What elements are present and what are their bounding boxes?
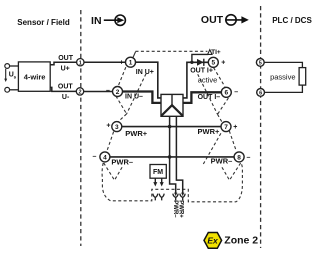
svg-text:PLC / DCS: PLC / DCS <box>272 16 312 25</box>
svg-text:7: 7 <box>224 124 228 131</box>
svg-text:OUT I–: OUT I– <box>198 94 221 101</box>
svg-text:–: – <box>234 89 238 96</box>
svg-text:5: 5 <box>211 60 215 67</box>
svg-text:IN U–: IN U– <box>125 94 143 101</box>
svg-text:2: 2 <box>116 89 120 96</box>
svg-text:PWR–: PWR– <box>111 158 133 167</box>
svg-text:8: 8 <box>237 154 241 161</box>
svg-text:PWR+: PWR+ <box>198 127 220 136</box>
svg-text:passive: passive <box>270 73 295 82</box>
svg-text:U+: U+ <box>61 65 70 72</box>
svg-text:6: 6 <box>224 90 228 97</box>
svg-text:active: active <box>198 76 218 85</box>
svg-text:1: 1 <box>129 60 133 67</box>
svg-text:PWR+: PWR+ <box>125 129 147 138</box>
svg-text:OUT: OUT <box>201 14 224 26</box>
svg-text:PWR–: PWR– <box>172 200 178 218</box>
svg-text:5: 5 <box>259 61 262 67</box>
svg-text:U-: U- <box>62 94 70 101</box>
svg-text:3: 3 <box>115 124 119 131</box>
svg-text:4: 4 <box>103 154 107 161</box>
svg-text:Zone 2: Zone 2 <box>224 234 258 246</box>
svg-text:1: 1 <box>79 60 82 66</box>
svg-text:PWR–: PWR– <box>211 157 233 166</box>
svg-text:+: + <box>221 60 225 67</box>
svg-text:+: + <box>233 124 237 131</box>
svg-text:PWR+: PWR+ <box>177 200 183 218</box>
svg-text:OUT I+: OUT I+ <box>190 68 213 75</box>
svg-text:IN U+: IN U+ <box>136 69 154 76</box>
svg-text:IN: IN <box>91 15 102 27</box>
svg-text:Sensor / Field: Sensor / Field <box>17 18 70 27</box>
svg-text:–: – <box>247 155 251 162</box>
svg-text:+: + <box>106 122 110 129</box>
svg-text:6: 6 <box>259 91 262 97</box>
svg-text:–: – <box>106 88 110 95</box>
svg-text:Ex: Ex <box>207 236 219 246</box>
svg-text:–: – <box>93 154 97 161</box>
svg-text:+: + <box>120 60 124 67</box>
svg-text:TI+: TI+ <box>211 49 221 56</box>
svg-text:FM: FM <box>153 169 163 176</box>
svg-text:OUT: OUT <box>58 84 74 91</box>
svg-text:OUT: OUT <box>58 55 74 62</box>
svg-text:4-wire: 4-wire <box>24 72 46 81</box>
svg-text:2: 2 <box>78 90 81 96</box>
